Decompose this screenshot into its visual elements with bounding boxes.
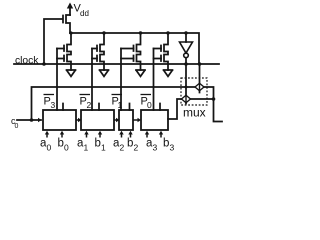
svg-text:3: 3 — [51, 100, 56, 110]
svg-text:2: 2 — [87, 100, 92, 110]
svg-text:mux: mux — [183, 106, 206, 120]
svg-text:0: 0 — [15, 123, 19, 130]
svg-text:3: 3 — [153, 143, 158, 153]
svg-text:b: b — [95, 138, 101, 150]
svg-text:b: b — [163, 138, 169, 150]
svg-text:0: 0 — [47, 143, 52, 153]
svg-text:b: b — [127, 138, 133, 150]
svg-text:0: 0 — [147, 100, 152, 110]
svg-text:1: 1 — [118, 100, 123, 110]
svg-text:1: 1 — [84, 143, 89, 153]
svg-text:1: 1 — [101, 143, 106, 153]
svg-text:b: b — [58, 138, 64, 150]
svg-text:0: 0 — [64, 143, 69, 153]
svg-text:2: 2 — [134, 143, 139, 153]
svg-text:3: 3 — [170, 143, 175, 153]
svg-text:2: 2 — [120, 143, 125, 153]
svg-text:clock: clock — [15, 56, 39, 67]
svg-text:dd: dd — [80, 9, 89, 18]
